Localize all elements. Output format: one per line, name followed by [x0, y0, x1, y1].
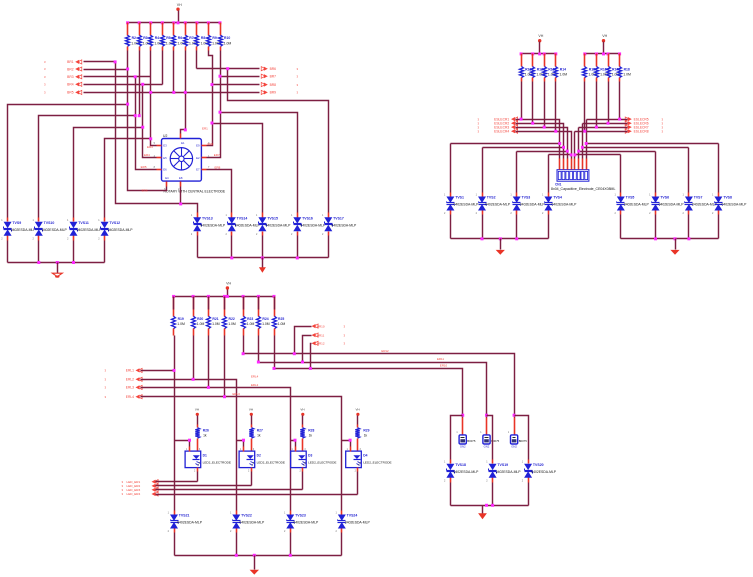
port ESLECR2 (left): [478, 121, 518, 125]
svg-text:BR3: BR3: [67, 75, 74, 79]
svg-text:R9: R9: [212, 36, 216, 40]
svg-text:VH: VH: [602, 34, 607, 38]
net label ER10 (on wire): [440, 364, 448, 368]
resistor R8: [195, 23, 211, 51]
wire resistor upper leads (bottom row): [174, 297, 275, 310]
net label BR10: [317, 324, 325, 328]
svg-text:E1: E1: [181, 141, 185, 145]
svg-text:1.0M: 1.0M: [197, 322, 205, 326]
wire net BR11 / R24 to electrode B2: [257, 336, 488, 418]
resistor R26: [195, 428, 209, 452]
svg-text:TVS1: TVS1: [455, 196, 464, 200]
port BR1 (left): [44, 60, 82, 64]
wire net TVS5 feed: [573, 153, 620, 192]
wire net ERL3 / R21 rail: [141, 336, 291, 511]
port BR8 (right): [261, 83, 298, 87]
LED electrode D4: [346, 447, 392, 473]
svg-text:0402ESDA-MLP: 0402ESDA-MLP: [345, 521, 371, 525]
wire net pin E7 to TVS14: [207, 170, 232, 213]
svg-text:E7: E7: [196, 168, 200, 172]
svg-text:TVS3: TVS3: [522, 196, 531, 200]
svg-text:0402ESDA-MLP: 0402ESDA-MLP: [11, 228, 37, 232]
svg-text:BR4: BR4: [67, 83, 74, 87]
svg-text:E4: E4: [165, 176, 169, 180]
svg-text:0402ESDA-MLP: 0402ESDA-MLP: [692, 203, 718, 207]
power flag VH (capacitive section left group): [538, 34, 544, 54]
svg-text:LED2_ELECTRODE: LED2_ELECTRODE: [308, 461, 336, 465]
resistor R9: [207, 23, 222, 51]
svg-text:BR9: BR9: [270, 91, 277, 95]
svg-text:0402ESDA-MLP: 0402ESDA-MLP: [177, 521, 203, 525]
svg-text:U2: U2: [163, 134, 167, 138]
TVS diode TVS23: [284, 511, 319, 534]
net label LED_ER1: [122, 480, 141, 484]
svg-text:ER7: ER7: [214, 153, 220, 157]
wire TVS5-8 ground bus: [621, 215, 719, 241]
port BR12: [312, 341, 346, 345]
net label ER12 (on wire): [381, 349, 389, 353]
power flag VH (module D1): [195, 408, 199, 428]
resistor R17: [607, 54, 622, 82]
resistor R6: [172, 23, 187, 51]
port ESLECR4 (left): [478, 129, 518, 133]
svg-text:VH: VH: [195, 408, 199, 412]
electrode button B1: [456, 418, 475, 449]
resistor R7: [184, 23, 199, 51]
net label ER4: [144, 153, 150, 157]
wire TVS21-24 ground bus: [175, 533, 342, 557]
resistor R5: [161, 23, 176, 51]
svg-text:ER4: ER4: [144, 153, 150, 157]
svg-text:E6: E6: [163, 168, 167, 172]
svg-text:0402ESDA-MLP: 0402ESDA-MLP: [454, 470, 480, 474]
port BR3 (left): [44, 75, 82, 79]
svg-text:1.0M: 1.0M: [177, 322, 185, 326]
TVS diode TVS17: [322, 213, 357, 236]
resistor R18: [618, 54, 632, 82]
resistor R19: [172, 297, 186, 336]
svg-text:0402ESDA-MLP: 0402ESDA-MLP: [552, 203, 578, 207]
wire LED_ER1: [156, 481, 198, 483]
TVS diode TVS15: [256, 213, 291, 236]
svg-text:R10: R10: [224, 36, 230, 40]
net label ER2: [208, 142, 214, 146]
svg-text:D4: D4: [363, 454, 367, 458]
TVS diode TVS2: [476, 193, 511, 216]
svg-text:ROTARY WITH CENTRAL ELECTRODE: ROTARY WITH CENTRAL ELECTRODE: [164, 189, 226, 193]
svg-text:E9: E9: [196, 144, 200, 148]
net label ER11 (on wire): [437, 357, 444, 361]
svg-text:ESLECR4: ESLECR4: [494, 130, 509, 134]
port BR4 (left): [44, 82, 82, 86]
wire net BR7 / R10 / TVS16 / pin E2: [207, 51, 298, 213]
svg-text:TVS22: TVS22: [241, 514, 252, 518]
resistor R10: [219, 23, 232, 51]
svg-text:E3: E3: [163, 144, 167, 148]
svg-text:ER5: ER5: [141, 165, 147, 169]
svg-text:TVS4: TVS4: [553, 196, 562, 200]
wire net ERL2 / R20 rail: [141, 336, 237, 511]
svg-text:ERL3: ERL3: [233, 392, 241, 396]
svg-text:TVS16: TVS16: [302, 216, 313, 220]
TVS diode TVS5: [614, 193, 649, 216]
svg-text:8x04_Capacitive_Electrode_CE04: 8x04_Capacitive_Electrode_CE04X08ML: [551, 187, 615, 191]
TVS diode TVS7: [683, 193, 718, 216]
svg-text:D1: D1: [203, 454, 207, 458]
resistor R16: [595, 54, 610, 82]
TVS diode TVS8: [712, 193, 747, 216]
svg-text:1.0M: 1.0M: [212, 322, 220, 326]
wire net BR4 / R5 / TVS11 / pin E5: [74, 51, 163, 218]
svg-text:ERL4: ERL4: [251, 375, 259, 379]
svg-text:TVS24: TVS24: [347, 514, 358, 518]
svg-text:R24: R24: [262, 317, 268, 321]
svg-text:R18: R18: [624, 67, 630, 71]
svg-text:TVS23: TVS23: [295, 514, 306, 518]
svg-text:D3: D3: [308, 454, 312, 458]
resistor R24: [257, 297, 270, 336]
svg-text:1.0M: 1.0M: [247, 322, 255, 326]
wire net TVS1 feed: [451, 142, 562, 193]
wire net ESLECR3 / R13 to connector pin 3: [516, 82, 568, 159]
resistor R14: [554, 54, 568, 82]
net label ER1: [202, 127, 208, 131]
port ESLECR3 (left): [478, 125, 518, 129]
svg-text:BR8: BR8: [270, 83, 277, 87]
wire net ERL4 / R22 rail: [141, 336, 342, 511]
resistor R15: [583, 54, 598, 82]
net label ERL3 (on wire): [233, 392, 241, 396]
resistor R29: [355, 428, 369, 452]
svg-text:LED2_ELECTRODE: LED2_ELECTRODE: [203, 461, 231, 465]
resistor R3: [138, 23, 153, 51]
resistor R13: [543, 54, 558, 82]
wire electrode B3 to TVS20: [515, 416, 529, 460]
svg-text:ERL3: ERL3: [126, 386, 134, 390]
svg-text:0402ESDA-MLP: 0402ESDA-MLP: [531, 470, 557, 474]
wire rail to D2 pin 1: [237, 439, 246, 447]
wire net TVS8 feed: [585, 142, 719, 193]
wire VH bus (group R15-R18): [583, 52, 621, 55]
svg-text:TVS8: TVS8: [723, 196, 732, 200]
resistor R4: [149, 23, 164, 51]
svg-text:R22: R22: [229, 317, 235, 321]
svg-text:TVS13: TVS13: [202, 216, 213, 220]
wire TVS18-20 ground bus: [451, 483, 529, 507]
svg-text:GN2: GN2: [511, 445, 517, 449]
resistor R27: [249, 428, 263, 452]
power flag VH (module D4): [356, 408, 360, 428]
svg-text:TVS11: TVS11: [78, 221, 89, 225]
wire LED_ER3: [156, 489, 303, 491]
TVS diode TVS4: [542, 193, 577, 216]
wire net ESLECR6 / R17 to connector pin 7: [583, 82, 628, 159]
svg-text:TVS17: TVS17: [333, 216, 344, 220]
TVS diode TVS10: [32, 218, 67, 241]
wire net BR5 / R4 / R6 / TVS12 / pin E3: [84, 51, 260, 218]
svg-text:TVS14: TVS14: [237, 216, 248, 220]
TVS diode TVS12: [98, 218, 133, 241]
port BR7 (right): [261, 74, 298, 78]
svg-text:LED_ER4: LED_ER4: [127, 492, 141, 496]
svg-text:D2: D2: [257, 454, 261, 458]
svg-text:0402ESDA-MLP: 0402ESDA-MLP: [496, 470, 522, 474]
wire TVS13-17 ground bus: [198, 236, 329, 260]
svg-text:ERL2: ERL2: [251, 383, 259, 387]
svg-text:ER10: ER10: [440, 364, 448, 368]
svg-text:ERL2: ERL2: [126, 378, 134, 382]
wire net BR3 / R3 / TVS10 / pin E6: [39, 51, 157, 218]
TVS diode TVS16: [291, 213, 326, 236]
port LED_ER2: [152, 484, 159, 488]
TVS diode TVS18: [444, 460, 479, 483]
svg-text:0402ESDA-MLP: 0402ESDA-MLP: [485, 203, 511, 207]
svg-text:VH: VH: [300, 408, 304, 412]
wire rail to D3 pin 1: [291, 439, 297, 447]
ground symbol (bottom section): [250, 556, 259, 575]
wire TVS9-12 ground bus: [8, 241, 105, 265]
port ERL3: [105, 385, 143, 389]
svg-text:R20: R20: [197, 317, 203, 321]
svg-text:TVS15: TVS15: [267, 216, 278, 220]
resistor R12: [531, 54, 546, 82]
port ERL1: [105, 368, 143, 372]
ground symbol (left TVS row): [52, 263, 62, 278]
connector CN1 capacitive electrode: [551, 159, 615, 192]
svg-text:VH: VH: [538, 34, 543, 38]
svg-text:R19: R19: [178, 317, 184, 321]
LED electrode D3: [291, 447, 337, 473]
wire D3 pin 2 to LED_ER3: [302, 472, 304, 490]
wire VH bus (bottom R19-R25): [172, 295, 275, 298]
resistor R2: [126, 23, 141, 51]
net label LED_ER3: [122, 488, 141, 492]
TVS diode TVS24: [335, 511, 370, 534]
svg-text:CN1: CN1: [555, 183, 562, 187]
port ESLECR6 (right): [625, 121, 663, 125]
svg-text:R26: R26: [203, 429, 209, 433]
svg-text:TVS5: TVS5: [626, 196, 635, 200]
svg-text:TVS7: TVS7: [694, 196, 703, 200]
wire VH bus (group R11-R14): [520, 52, 558, 55]
svg-text:TVS6: TVS6: [660, 196, 669, 200]
svg-text:LED2_ELECTRODE: LED2_ELECTRODE: [363, 461, 391, 465]
svg-text:BR5: BR5: [67, 91, 74, 95]
net label ER3: [147, 145, 153, 149]
svg-text:E5: E5: [163, 156, 167, 160]
svg-text:ER3: ER3: [147, 145, 153, 149]
svg-text:E8: E8: [179, 176, 183, 180]
TVS diode TVS13: [191, 213, 226, 236]
svg-text:ER1: ER1: [202, 127, 208, 131]
rotary switch U2 ROTARY WITH CENTRAL ELECTRODE: [154, 134, 226, 194]
svg-text:TVS19: TVS19: [497, 463, 508, 467]
svg-text:1.0M: 1.0M: [560, 73, 568, 77]
wire net ESLECR5 / R18 to connector pin 8: [587, 82, 628, 159]
svg-text:ESLECR8: ESLECR8: [634, 130, 649, 134]
svg-text:1k: 1k: [309, 434, 313, 438]
wire net ESLECR7 / R16 to connector pin 6: [579, 82, 628, 159]
svg-text:1.0M: 1.0M: [623, 73, 631, 77]
net label LED_ER2: [122, 484, 141, 488]
port BR11: [312, 333, 346, 337]
port BR5 (left): [44, 90, 82, 94]
LED electrode D2: [239, 447, 285, 473]
TVS diode TVS22: [230, 511, 265, 534]
wire D4 pin 2 to LED_ER4: [357, 472, 359, 495]
svg-text:1k: 1k: [257, 434, 261, 438]
svg-text:R8: R8: [201, 36, 205, 40]
resistor R23: [242, 297, 255, 336]
wire net ESLECR4 / R14 to connector pin 4: [516, 82, 572, 159]
TVS diode TVS3: [510, 193, 545, 216]
wire net BR6 / R8 / TVS17: [197, 51, 329, 213]
svg-text:0402ESDA-MLP: 0402ESDA-MLP: [108, 228, 134, 232]
wire net BR8 / R9 / TVS15 / pin E9: [207, 51, 263, 213]
svg-text:BR7: BR7: [270, 75, 277, 79]
resistor R25: [273, 297, 286, 336]
wire VH bus (top-left): [128, 22, 221, 24]
svg-text:B0075: B0075: [467, 439, 476, 443]
svg-text:R23: R23: [247, 317, 253, 321]
svg-text:0402ESDA-MLP: 0402ESDA-MLP: [722, 203, 748, 207]
LED electrode D1: [185, 447, 231, 473]
net label ER8: [215, 166, 221, 170]
port BR6 (right): [261, 67, 298, 71]
svg-text:0402ESDA-MLP: 0402ESDA-MLP: [200, 223, 226, 227]
svg-text:TVS12: TVS12: [109, 221, 120, 225]
port ESLECR8 (right): [625, 129, 663, 133]
electrode button B3: [508, 418, 527, 449]
svg-text:VH: VH: [177, 3, 182, 7]
svg-text:ER6: ER6: [142, 188, 148, 192]
svg-text:ERL1: ERL1: [126, 369, 134, 373]
svg-text:TVS9: TVS9: [12, 221, 21, 225]
svg-text:1k: 1k: [364, 434, 368, 438]
svg-text:ER11: ER11: [437, 357, 444, 361]
port ERL4: [105, 395, 143, 399]
TVS diode TVS1: [444, 193, 479, 216]
port LED_ER3: [152, 488, 159, 492]
wire rail to D4 pin 1: [342, 439, 352, 447]
resistor R11: [520, 54, 535, 82]
svg-text:0402ESDA-MLP: 0402ESDA-MLP: [331, 223, 357, 227]
wire net ERL1 / R19 rail: [141, 336, 176, 511]
svg-text:ER12: ER12: [381, 349, 389, 353]
power flag VH (top-left section): [176, 3, 182, 23]
TVS diode TVS11: [67, 218, 102, 241]
power flag VH (module D3): [300, 408, 304, 428]
wire net R7 to rotary top pin: [181, 51, 187, 134]
power flag VH (module D2): [249, 408, 253, 428]
svg-text:VH: VH: [226, 281, 231, 285]
wire rail to D1 pin 1: [175, 439, 192, 447]
resistor R21: [207, 297, 220, 336]
svg-text:0402ESDA-MLP: 0402ESDA-MLP: [520, 203, 546, 207]
port BR9 (right): [261, 90, 298, 94]
resistor R28: [300, 428, 314, 452]
svg-text:BR6: BR6: [270, 67, 277, 71]
wire net BR1 to TVS13 and rotary central electrode: [84, 60, 198, 212]
net label BR12: [317, 342, 325, 346]
TVS diode TVS14: [225, 213, 260, 236]
port ERL2: [105, 377, 143, 381]
svg-text:B0075: B0075: [519, 439, 528, 443]
svg-text:VH: VH: [356, 408, 360, 412]
svg-text:R2: R2: [132, 36, 136, 40]
wire net TVS3 feed: [517, 150, 569, 193]
electrode button B2: [480, 418, 499, 449]
svg-text:ERL4: ERL4: [126, 395, 134, 399]
TVS diode TVS20: [522, 460, 557, 483]
resistor R22: [223, 297, 236, 336]
svg-text:1.0M: 1.0M: [262, 322, 270, 326]
svg-text:0402ESDA-MLP: 0402ESDA-MLP: [659, 203, 685, 207]
svg-text:0402ESDA-MLP: 0402ESDA-MLP: [42, 228, 68, 232]
wire LED_ER2: [156, 485, 252, 487]
svg-text:R27: R27: [257, 429, 263, 433]
wire TVS1-4 ground bus: [451, 215, 549, 241]
svg-text:0402ESDA-MLP: 0402ESDA-MLP: [624, 203, 650, 207]
svg-text:0402ESDA-MLP: 0402ESDA-MLP: [293, 521, 319, 525]
svg-text:ER8: ER8: [215, 166, 221, 170]
net label ERL2 (on wire): [251, 383, 259, 387]
svg-text:TVS21: TVS21: [179, 514, 190, 518]
svg-text:R28: R28: [308, 429, 314, 433]
wire net BR2 / R2 / TVS9 / pin E4: [8, 51, 167, 218]
power flag VH (bottom section): [226, 281, 232, 296]
svg-text:R14: R14: [560, 67, 566, 71]
svg-text:VH: VH: [249, 408, 253, 412]
svg-text:TVS18: TVS18: [455, 463, 466, 467]
wire net BR12 / R25 to electrode B1: [273, 336, 465, 418]
TVS diode TVS9: [1, 218, 36, 241]
svg-text:R21: R21: [212, 317, 218, 321]
svg-text:ER2: ER2: [208, 142, 214, 146]
wire net TVS6 feed: [577, 150, 655, 193]
svg-text:R7: R7: [189, 36, 193, 40]
ground symbol (TVS18-20): [478, 506, 487, 520]
svg-text:R4: R4: [155, 36, 159, 40]
net label ER7: [214, 153, 220, 157]
TVS diode TVS21: [168, 511, 203, 534]
net label ER5: [141, 165, 147, 169]
TVS diode TVS6: [649, 193, 684, 216]
TVS diode TVS19: [486, 460, 521, 483]
ground symbol (TVS1-4): [496, 239, 505, 255]
wire net BR10 / R23 to electrode B3: [242, 327, 516, 418]
wire D2 pin 2 to LED_ER2: [251, 472, 253, 486]
power flag VH (capacitive section right group): [602, 34, 608, 54]
wire net TVS7 feed: [581, 146, 689, 193]
ground symbol (right TVS row): [259, 258, 266, 273]
svg-text:GN2: GN2: [484, 445, 490, 449]
svg-text:BR12: BR12: [317, 342, 325, 346]
wire electrode B1 to TVS18: [451, 416, 463, 460]
net label BR11: [317, 333, 325, 337]
svg-text:1k: 1k: [203, 434, 207, 438]
wire D1 pin 2 to LED_ER1: [197, 472, 199, 482]
svg-text:BR1: BR1: [67, 60, 74, 64]
svg-text:BR10: BR10: [317, 324, 325, 328]
svg-text:1.0M: 1.0M: [228, 322, 236, 326]
resistor R20: [192, 297, 205, 336]
svg-text:LED2_ELECTRODE: LED2_ELECTRODE: [257, 461, 285, 465]
net label ERL4 (on wire): [251, 375, 259, 379]
svg-text:0402ESDA-MLP: 0402ESDA-MLP: [300, 223, 326, 227]
junction dots on VH bus: [126, 21, 221, 24]
port BR2 (left): [44, 67, 82, 71]
